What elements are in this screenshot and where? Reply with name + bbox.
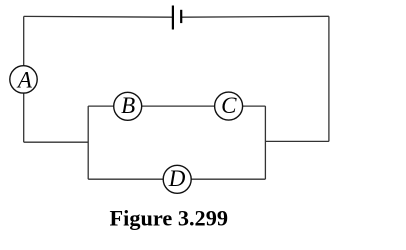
wire bottom-right horizontal (to inner loop right): [265, 140, 329, 142]
wire left vertical upper (corner to ammeter A): [23, 16, 25, 65]
wire inner bottom rail: meter D to right corner: [191, 178, 265, 180]
battery B1 short plate (-): [180, 10, 182, 23]
wire inner bottom rail: left corner to meter D: [88, 178, 163, 180]
meter D circle: [163, 165, 191, 193]
svg-text:D: D: [168, 166, 186, 191]
wire inner top rail: meter C to right corner: [243, 105, 266, 107]
wire left vertical lower (ammeter A to bottom-left corner): [23, 93, 25, 142]
ammeter A circle: [10, 66, 37, 93]
wire inner top rail: left corner to meter B: [88, 105, 114, 107]
wire inner-right vertical: [264, 106, 266, 179]
wire inner top rail: meter B to meter C: [142, 105, 215, 107]
wire top-left segment (battery to left corner): [24, 15, 173, 18]
meter B circle: [114, 92, 142, 120]
meter C circle: [215, 92, 243, 120]
wire bottom-left horizontal (to inner loop left): [24, 141, 89, 143]
svg-text:B: B: [121, 93, 135, 118]
svg-text:C: C: [221, 93, 237, 118]
wire right vertical (top-right corner down): [328, 16, 330, 141]
wire top-right segment (battery to right corner): [181, 15, 329, 18]
svg-text:A: A: [16, 68, 33, 93]
battery B1 long plate (+): [172, 6, 174, 30]
wire inner-left vertical: [87, 106, 89, 179]
svg-text:Figure 3.299: Figure 3.299: [110, 206, 229, 231]
